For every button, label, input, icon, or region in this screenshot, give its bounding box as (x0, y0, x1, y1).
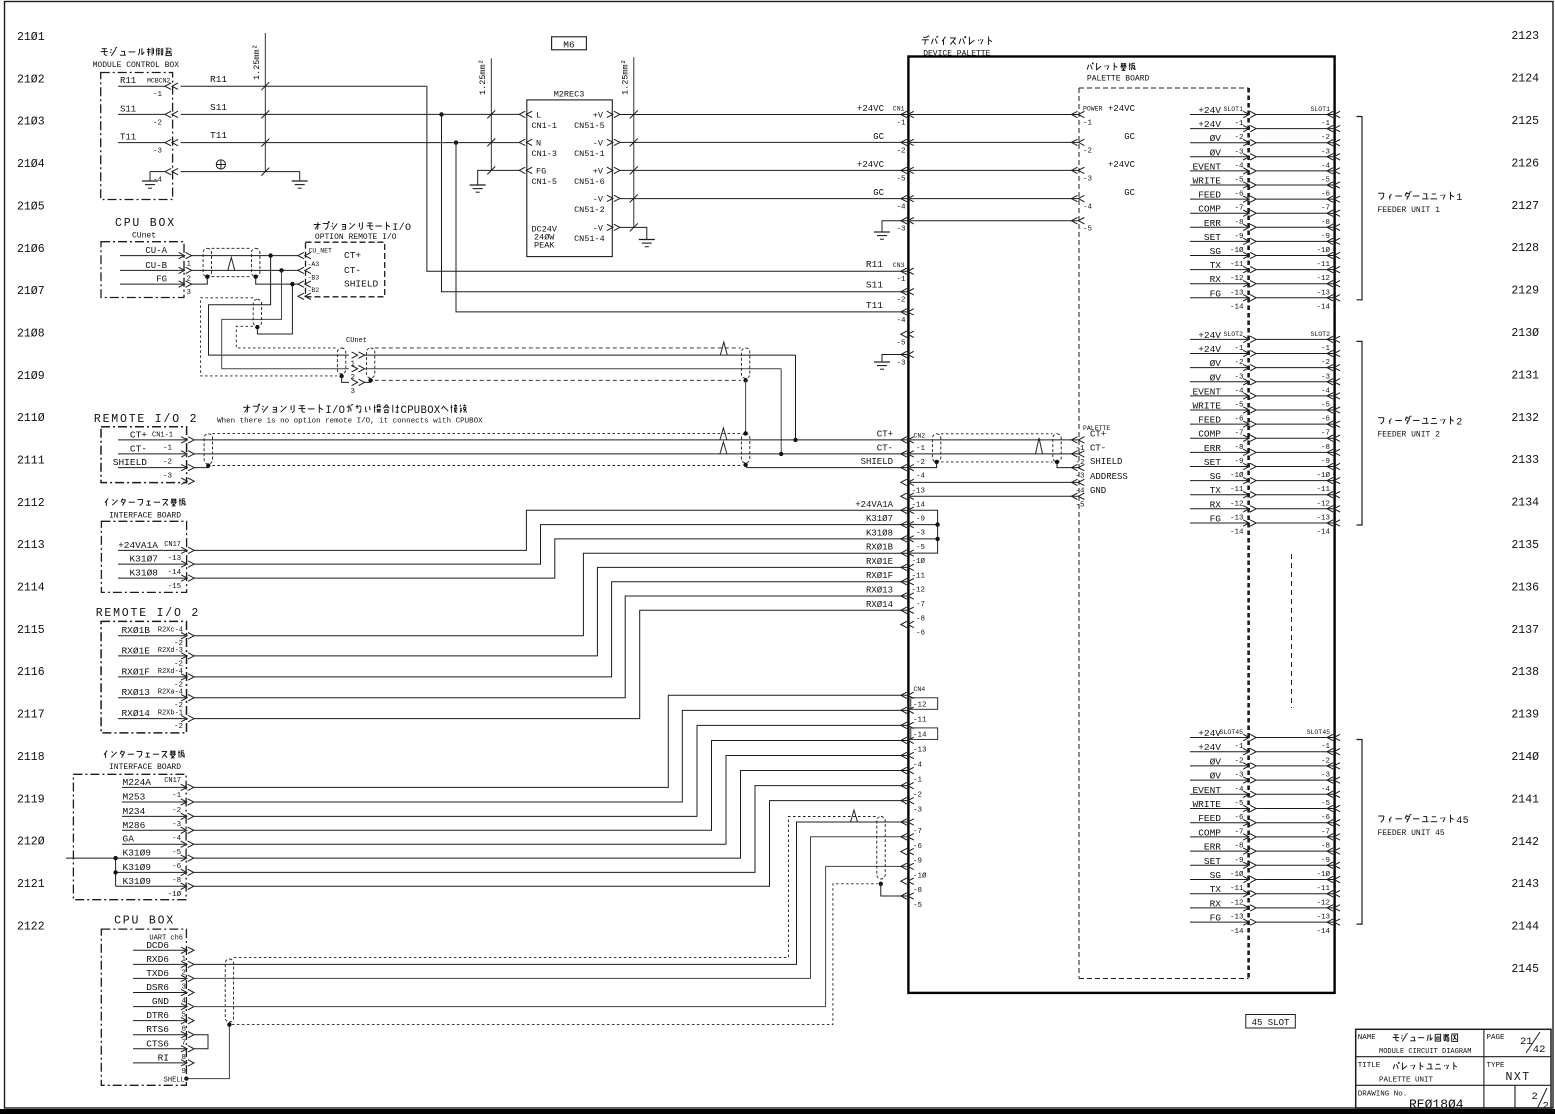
svg-text:SLOT2: SLOT2 (1310, 331, 1330, 338)
wire K3109 (193, 786, 908, 873)
svg-text:-2: -2 (1321, 134, 1330, 142)
svg-text:2125: 2125 (1511, 115, 1539, 128)
svg-text:FG: FG (156, 275, 167, 285)
svg-text:2113: 2113 (17, 539, 45, 552)
CN4 pin -10 (901, 863, 907, 869)
svg-text:212Ø: 212Ø (17, 836, 45, 849)
svg-text:CT+: CT+ (877, 429, 893, 439)
twist symbol (720, 428, 727, 440)
svg-text:2142: 2142 (1511, 836, 1539, 849)
junction CU-B (279, 268, 283, 272)
svg-text:1.25mm²: 1.25mm² (252, 44, 262, 80)
CN2 pin -13 (901, 479, 907, 485)
M2REC3 pin +V CN51-6 (614, 167, 620, 173)
wire +24VC (910, 114, 1079, 116)
svg-text:RXØ14: RXØ14 (866, 600, 893, 610)
svg-text:N: N (536, 138, 541, 148)
svg-text:RTS6: RTS6 (146, 1024, 169, 1035)
cable sheath dashed (375, 347, 741, 349)
svg-text:CN2: CN2 (914, 433, 926, 440)
svg-text:SHELL: SHELL (164, 1077, 185, 1085)
CN4 pin -13 (901, 737, 907, 743)
svg-text:2111: 2111 (17, 455, 45, 468)
jumper RTS6-CTS6 (194, 1035, 208, 1049)
INTERFACE BOARD label (105, 498, 108, 502)
svg-text:RXØ1E: RXØ1E (866, 557, 893, 567)
svg-text:-3: -3 (163, 472, 173, 480)
svg-text:2127: 2127 (1511, 200, 1539, 213)
svg-text:-2: -2 (913, 792, 922, 800)
label 45 SLOT (1246, 1015, 1296, 1029)
wire CT+ internal (910, 439, 1079, 441)
cable end (741, 433, 749, 463)
svg-text:CT+: CT+ (130, 429, 147, 440)
svg-text:21Ø6: 21Ø6 (17, 243, 45, 256)
svg-text:O: O (405, 223, 411, 234)
feeder bracket SLOT45 (1357, 740, 1363, 925)
svg-text:2117: 2117 (17, 709, 45, 722)
CN4 pin -6 (901, 834, 907, 840)
CN2 pin -7 RX013 (901, 593, 907, 599)
svg-text:-B3: -B3 (308, 275, 320, 282)
svg-text:RXØ1B: RXØ1B (866, 543, 894, 553)
svg-text:-12: -12 (1230, 275, 1244, 283)
PALETTE pin -3 SHIELD (1071, 464, 1077, 470)
svg-text:CN51-6: CN51-6 (574, 177, 605, 187)
wire T11 (181, 142, 520, 144)
shield dotted (232, 884, 878, 1025)
svg-text:-2: -2 (1234, 359, 1243, 367)
svg-text:-13: -13 (1230, 289, 1244, 297)
CN2 pin -6 (901, 621, 907, 627)
svg-text:REØ18Ø4: REØ18Ø4 (1409, 1097, 1464, 1112)
wire S11 drop (442, 114, 908, 291)
svg-text:M2REC3: M2REC3 (554, 90, 585, 100)
svg-text:RXØ1F: RXØ1F (866, 571, 893, 581)
wire GC (619, 141, 908, 143)
svg-text:T11: T11 (210, 130, 227, 141)
wire FG to shield (191, 277, 207, 284)
wire GND (910, 495, 1079, 497)
svg-text:-3: -3 (1083, 175, 1093, 183)
svg-text:21Ø4: 21Ø4 (17, 158, 45, 171)
svg-text:-13: -13 (1230, 914, 1244, 922)
svg-text:-7: -7 (1234, 828, 1243, 836)
CN1 pin -4 (901, 195, 907, 201)
svg-text:-6: -6 (1321, 191, 1331, 199)
CN2 pin -9 +24VA1A (901, 507, 907, 513)
feeder unit label SLOT2 (1378, 417, 1384, 419)
wire M286 (193, 741, 908, 831)
CN2 jumper -9/-3/-5/-10 (910, 510, 938, 553)
wire GC (910, 198, 1079, 200)
cable shield (CPU-option) (203, 248, 211, 276)
svg-text:21Ø2: 21Ø2 (17, 73, 45, 86)
wire M253 (193, 710, 908, 802)
svg-text:CN17: CN17 (164, 777, 181, 785)
svg-text:+24VA1A: +24VA1A (855, 500, 893, 510)
svg-text:-11: -11 (1316, 885, 1330, 893)
CN4 pin -14 (901, 722, 907, 728)
wire power-5 (910, 220, 1079, 222)
svg-text:2124: 2124 (1511, 73, 1539, 86)
svg-text:-8: -8 (1321, 444, 1330, 452)
svg-text:-3: -3 (916, 530, 926, 538)
CN1 pin -3 (901, 218, 907, 224)
svg-text:CPU BOX: CPU BOX (115, 217, 176, 230)
svg-text:B: B (421, 405, 427, 417)
svg-text:2139: 2139 (1511, 709, 1539, 722)
svg-text:-1Ø: -1Ø (913, 871, 927, 880)
svg-text:-8: -8 (916, 615, 925, 623)
svg-text:3: 3 (187, 289, 192, 297)
svg-text:2115: 2115 (17, 624, 45, 637)
svg-text:-3: -3 (1321, 772, 1331, 780)
svg-text:1.25mm²: 1.25mm² (478, 59, 488, 95)
svg-text:DCD6: DCD6 (146, 940, 169, 951)
svg-text:-2: -2 (1321, 757, 1330, 765)
svg-text:-11: -11 (1316, 261, 1330, 269)
svg-text:SLOT1: SLOT1 (1310, 106, 1330, 113)
twist symbol (228, 257, 235, 270)
CN1 pin -1 (901, 111, 907, 117)
wire CN2 shield stub (910, 462, 937, 468)
svg-text:NAME: NAME (1358, 1034, 1377, 1042)
junction (779, 452, 783, 456)
wire PALETTE shield stub (1057, 462, 1079, 468)
svg-text:TYPE: TYPE (1487, 1062, 1506, 1070)
wire T11 drop (456, 143, 908, 312)
svg-text:-2: -2 (1234, 134, 1243, 142)
ground CN1-3 (874, 231, 890, 233)
svg-text:DRAWING No.: DRAWING No. (1358, 1091, 1408, 1099)
svg-text:2143: 2143 (1511, 878, 1539, 891)
svg-text:-2: -2 (163, 459, 172, 467)
svg-text:-14: -14 (168, 569, 182, 577)
svg-text:-3: -3 (1321, 373, 1331, 381)
svg-text:-2: -2 (896, 297, 905, 305)
M2REC3 pin -V CN51-2 (614, 195, 620, 201)
svg-text:2131: 2131 (1511, 369, 1539, 382)
wire RXD6 (193, 822, 907, 964)
feeder bracket SLOT2 (1357, 341, 1363, 525)
ground CN3-3 (874, 361, 890, 363)
svg-text:INTERFACE BOARD: INTERFACE BOARD (109, 763, 181, 772)
M2REC3 pin L CN1-1 (519, 111, 525, 117)
wire GC (619, 198, 908, 200)
wire GND (193, 866, 907, 1006)
svg-text:SHIELD: SHIELD (1090, 457, 1122, 467)
M2REC3 pin +V CN51-5 (614, 111, 620, 117)
wire CN3-3 ground (882, 355, 908, 362)
svg-text:CT-: CT- (344, 265, 361, 276)
svg-text:-1: -1 (896, 120, 906, 128)
svg-text:2133: 2133 (1511, 454, 1539, 467)
svg-text:CN4: CN4 (914, 686, 926, 693)
wire-size line 1.25mm2 (right) (633, 57, 635, 227)
svg-text:-14: -14 (911, 501, 925, 509)
wire RX01E (194, 567, 908, 656)
POWER pin -5 (1071, 218, 1077, 224)
svg-text:FEEDER UNIT 45: FEEDER UNIT 45 (1378, 829, 1445, 838)
svg-text:2121: 2121 (17, 878, 45, 891)
twist symbol (1036, 438, 1043, 454)
wire +24VC (910, 169, 1079, 171)
svg-text:21Ø5: 21Ø5 (17, 200, 45, 213)
svg-text:-8: -8 (1234, 444, 1243, 452)
svg-text:2112: 2112 (17, 497, 45, 510)
svg-text:-6: -6 (916, 630, 926, 638)
CUnet wire 1 (364, 354, 796, 356)
svg-text:SLOT45: SLOT45 (1220, 729, 1244, 736)
svg-text:2119: 2119 (17, 793, 45, 806)
svg-text:-4: -4 (1234, 786, 1244, 794)
svg-text:CUnet: CUnet (132, 232, 156, 241)
svg-text:T11: T11 (866, 300, 883, 311)
svg-text:MODULE CONTROL BOX: MODULE CONTROL BOX (93, 61, 180, 70)
svg-text:2116: 2116 (17, 666, 45, 679)
svg-text:-12: -12 (913, 701, 927, 709)
svg-text:RXD6: RXD6 (146, 954, 169, 965)
svg-text:-4: -4 (896, 204, 906, 212)
svg-text:-13: -13 (1316, 515, 1330, 523)
junction shield L (205, 275, 209, 279)
svg-text:-5: -5 (913, 902, 923, 910)
svg-text:-1: -1 (1083, 120, 1093, 128)
svg-text:-7: -7 (1321, 430, 1330, 438)
svg-text:-11: -11 (1230, 261, 1244, 269)
svg-text:2: 2 (1543, 1101, 1549, 1113)
junction T11 (454, 140, 458, 144)
svg-text:-4: -4 (153, 177, 163, 185)
svg-text:2144: 2144 (1511, 921, 1539, 934)
svg-text:4: 4 (1456, 816, 1462, 827)
palette board label (1087, 65, 1089, 70)
svg-text:-5: -5 (1234, 800, 1244, 808)
POWER pin -2 GC (1071, 139, 1077, 145)
svg-text:SLOT45: SLOT45 (1307, 729, 1331, 736)
svg-text:CN1: CN1 (893, 106, 905, 113)
svg-text:-3: -3 (172, 821, 182, 829)
CN1 pin -5 (901, 167, 907, 173)
svg-text:-9: -9 (1234, 233, 1243, 241)
svg-text:R2Xa-4: R2Xa-4 (158, 689, 183, 697)
svg-text:-12: -12 (1316, 500, 1330, 508)
svg-text:-9: -9 (916, 515, 925, 523)
svg-text:T11: T11 (120, 133, 136, 143)
ground FG (470, 184, 486, 186)
svg-text:-13: -13 (1230, 515, 1244, 523)
cable end (CN4) (877, 817, 885, 880)
svg-text:CN51-1: CN51-1 (574, 149, 605, 159)
svg-text:21Ø7: 21Ø7 (17, 285, 45, 298)
label M6 (552, 37, 587, 50)
svg-text:-6: -6 (1321, 814, 1331, 822)
wire CN1-3 to ground (882, 221, 908, 232)
svg-text:-1Ø: -1Ø (1230, 471, 1244, 480)
svg-text:-7: -7 (913, 828, 922, 836)
cable end (204, 434, 212, 464)
remote pin 4 (188, 478, 194, 484)
svg-text:-1: -1 (896, 276, 906, 284)
svg-text:RXØ14: RXØ14 (121, 708, 150, 719)
svg-text:+24VC: +24VC (1108, 104, 1136, 114)
CN4 pin -4 (901, 752, 907, 758)
svg-text:CU-A: CU-A (145, 246, 167, 256)
svg-text:REMOTE I/O 2: REMOTE I/O 2 (94, 413, 198, 426)
svg-text:CUnet: CUnet (346, 337, 367, 345)
svg-text:M6: M6 (563, 39, 575, 50)
svg-text:211Ø: 211Ø (17, 412, 45, 425)
svg-text:-8: -8 (1321, 219, 1330, 227)
svg-text:2114: 2114 (17, 582, 45, 595)
M2REC3 pin -V CN51-4 (614, 224, 620, 230)
svg-text:S11: S11 (866, 280, 883, 291)
CUnet pin 2 (359, 366, 365, 372)
svg-text:MODULE CIRCUIT DIAGRAM: MODULE CIRCUIT DIAGRAM (1379, 1048, 1471, 1056)
wire-size line 1.25mm2 (module) (264, 33, 266, 172)
CN2 pin -12 RX01F (901, 579, 907, 585)
svg-text:-5: -5 (916, 544, 926, 552)
svg-text:9: 9 (182, 1068, 187, 1076)
svg-text:K31Ø9: K31Ø9 (123, 862, 152, 873)
CN4 pin -2 (901, 782, 907, 788)
CN3 pin -2 (901, 289, 907, 295)
svg-text:-V: -V (593, 138, 604, 148)
svg-text:-13: -13 (1316, 914, 1330, 922)
svg-text:-2: -2 (916, 459, 925, 467)
CN2 pin -2 CT- (901, 451, 907, 457)
CN2 pin -5 K3108 (901, 536, 907, 542)
wire CT- drop (222, 270, 349, 368)
svg-text:CT+: CT+ (1090, 429, 1106, 439)
svg-text:3: 3 (351, 388, 356, 396)
svg-text:214Ø: 214Ø (1511, 751, 1539, 764)
CN4 pin -12 (901, 692, 907, 698)
junction CU-A (268, 253, 272, 257)
svg-text:SLOT2: SLOT2 (1223, 331, 1243, 338)
svg-text:INTERFACE BOARD: INTERFACE BOARD (109, 512, 181, 521)
svg-text:-2: -2 (174, 723, 183, 731)
CN4 pin -5 (901, 893, 907, 899)
svg-text:R11: R11 (120, 76, 136, 86)
ground CN51-4 (639, 239, 655, 241)
PALETTE pin -5 GND (1071, 493, 1077, 499)
svg-text:42: 42 (1533, 1044, 1546, 1056)
CPU box (101, 242, 184, 298)
svg-text:-1: -1 (1321, 345, 1331, 353)
remote I/O 2 box (RX) (101, 621, 186, 733)
wire shield to CN4-5 (881, 884, 908, 896)
wire CU-B (191, 269, 299, 271)
svg-text:-11: -11 (911, 572, 925, 580)
junction shield R (254, 275, 258, 279)
svg-text:SLOT1: SLOT1 (1223, 106, 1243, 113)
svg-text:-V: -V (593, 194, 604, 204)
svg-text:CT-: CT- (877, 443, 893, 453)
junction S11 (439, 112, 443, 116)
svg-text:S11: S11 (120, 104, 136, 114)
module pin -4 ground (150, 171, 166, 173)
svg-text:-9: -9 (1321, 233, 1330, 241)
shield drain link (745, 380, 747, 433)
svg-text:CN1-1: CN1-1 (152, 432, 173, 440)
svg-text:-8: -8 (1234, 219, 1243, 227)
module control box MCBCN2 (101, 73, 173, 200)
svg-text:When there is no option remote: When there is no option remote I/O, it c… (217, 418, 483, 426)
wire pin3 stub (364, 380, 371, 382)
svg-text:CN1-3: CN1-3 (532, 149, 558, 159)
svg-text:-A3: -A3 (308, 261, 320, 268)
svg-text:2: 2 (1456, 418, 1462, 429)
svg-text:SHIELD: SHIELD (861, 457, 893, 467)
svg-text:TITLE: TITLE (1358, 1062, 1381, 1070)
option pin -B3 SHIELD (298, 281, 304, 287)
svg-text:-3: -3 (1234, 373, 1244, 381)
svg-text:SHIELD: SHIELD (113, 457, 148, 468)
svg-text:213Ø: 213Ø (1511, 327, 1539, 340)
svg-text:CN1-1: CN1-1 (532, 121, 558, 131)
option remote I/O box (306, 242, 385, 297)
svg-text:-1: -1 (1234, 120, 1244, 128)
PALETTE pin -1 CT+ (1071, 437, 1077, 443)
svg-text:NXT: NXT (1506, 1071, 1531, 1084)
wire +24VC (619, 114, 908, 116)
svg-text:-14: -14 (1230, 303, 1244, 311)
svg-text:-9: -9 (1321, 458, 1330, 466)
wire FG to ground (478, 170, 520, 184)
svg-text:U: U (414, 405, 420, 417)
ground PE (292, 180, 308, 182)
svg-text:RXØ1F: RXØ1F (121, 666, 150, 677)
svg-text:-1Ø: -1Ø (1316, 471, 1330, 480)
svg-text:-2: -2 (1075, 459, 1084, 467)
CUnet pin 1 (359, 352, 365, 358)
svg-text:-5: -5 (896, 339, 906, 347)
wire PE (181, 171, 300, 173)
svg-text:K31Ø7: K31Ø7 (866, 514, 893, 524)
svg-text:2122: 2122 (17, 920, 45, 933)
svg-text:-9: -9 (1321, 857, 1330, 865)
svg-text:2132: 2132 (1511, 412, 1539, 425)
svg-text:P: P (407, 405, 413, 417)
wire RX01B (194, 553, 908, 636)
svg-text:-5: -5 (172, 849, 182, 857)
svg-text:-14: -14 (1316, 303, 1330, 311)
wire ADDRESS (910, 481, 1079, 483)
interface board 2 box (73, 774, 186, 899)
wire SHIELD stub (194, 466, 209, 468)
wire shield drop (257, 284, 292, 334)
svg-text:RXØ13: RXØ13 (121, 687, 150, 698)
wire M234 (193, 725, 908, 816)
wire R11 drop (427, 86, 908, 271)
svg-text:+24VA1A: +24VA1A (118, 540, 158, 551)
svg-text:RXØ1B: RXØ1B (121, 625, 150, 636)
svg-text:K31Ø8: K31Ø8 (866, 528, 893, 538)
svg-text:CT-: CT- (130, 443, 147, 454)
svg-text:CPU BOX: CPU BOX (114, 915, 175, 928)
svg-text:2126: 2126 (1511, 157, 1539, 170)
svg-text:2128: 2128 (1511, 242, 1539, 255)
svg-text:CN3: CN3 (893, 262, 905, 269)
wire S11 (181, 113, 520, 115)
svg-text:TXD6: TXD6 (146, 968, 169, 979)
svg-text:-8: -8 (172, 877, 181, 885)
svg-text:-12: -12 (1316, 899, 1330, 907)
svg-text:2138: 2138 (1511, 666, 1539, 679)
svg-text:2137: 2137 (1511, 624, 1539, 637)
